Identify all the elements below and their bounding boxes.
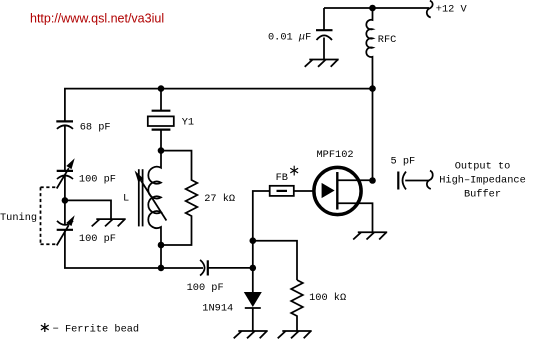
svg-text:RFC: RFC (378, 34, 397, 46)
wire RFC node to drain (372, 89, 374, 181)
node bottom rail junction (158, 265, 165, 272)
node L bottom junction (158, 242, 165, 249)
wire FB to gate (294, 190, 315, 192)
svg-text:FB: FB (276, 172, 288, 184)
resistor R1 27k (161, 151, 197, 245)
svg-text:Y1: Y1 (182, 116, 194, 128)
node gate-resistor junction (250, 237, 257, 244)
diode D1 1N914 (252, 268, 254, 292)
capacitor C2 68pF (56, 120, 73, 122)
wire C5 to gate node (208, 267, 253, 269)
wire source (337, 203, 372, 232)
wire C3 to node (64, 176, 66, 225)
wire drain (337, 179, 372, 181)
svg-text:+12 V: +12 V (436, 4, 468, 16)
node top-rail Y1 junction (158, 85, 165, 92)
arrow L (141, 181, 166, 221)
node diode junction (250, 265, 257, 272)
ground G4 (234, 331, 268, 338)
ground G3 (353, 232, 387, 239)
svg-text:100 pF: 100 pF (79, 173, 116, 185)
svg-text:1N914: 1N914 (202, 303, 233, 315)
inductor L core lines (138, 169, 140, 226)
svg-text:5 pF: 5 pF (391, 155, 416, 167)
svg-text:http://www.qsl.net/va3iul: http://www.qsl.net/va3iul (30, 12, 164, 26)
arrow C3 (57, 168, 69, 188)
capacitor C3 100pF variable (57, 170, 73, 172)
svg-text:Tuning: Tuning (0, 212, 37, 224)
note ferrite bead asterisk (41, 323, 49, 332)
wire C1 to ground (323, 38, 325, 60)
svg-text:L: L (123, 193, 129, 205)
node top-rail right junction (369, 85, 376, 92)
capacitor C1 0.01uF plates (316, 29, 333, 31)
wire L bottom to rail (160, 245, 162, 268)
svg-text:− Ferrite bead: − Ferrite bead (53, 324, 140, 336)
transistor Q1 channel (336, 172, 338, 210)
inductor L coil (148, 151, 161, 245)
svg-text:100 kΩ: 100 kΩ (309, 292, 346, 304)
arrow C4 (57, 225, 69, 245)
svg-text:100 pF: 100 pF (79, 233, 116, 245)
svg-text:27 kΩ: 27 kΩ (204, 193, 235, 205)
wire +12V rail (324, 7, 429, 9)
wire top rail (65, 89, 373, 122)
ground G5 (278, 331, 312, 338)
wire to output (405, 180, 429, 182)
wire tuning node to ground (65, 200, 111, 219)
capacitor C6 5pF (397, 172, 399, 190)
wire C2 to varcap (64, 126, 66, 171)
node junction V+ (369, 5, 376, 12)
svg-text:100 pF: 100 pF (187, 282, 224, 294)
svg-text:Buffer: Buffer (464, 189, 501, 201)
svg-text:Output to: Output to (455, 161, 511, 173)
ground G1 (305, 60, 339, 67)
node drain junction (369, 177, 376, 184)
svg-text:High–Impedance: High–Impedance (439, 175, 526, 187)
node tuning junction (62, 197, 69, 204)
svg-text:MPF102: MPF102 (317, 149, 354, 161)
connector output squiggle (427, 171, 433, 189)
inductor RFC (366, 8, 372, 89)
connector +12V squiggle (427, 1, 433, 18)
transistor Q1 gate arrow (322, 183, 335, 198)
capacitor C5 100pF coupling (200, 260, 205, 276)
ground G2 (92, 219, 126, 226)
svg-text:0.01 μF: 0.01 μF (268, 31, 311, 43)
crystal Y1 (160, 89, 162, 111)
ferrite bead FB (270, 186, 294, 196)
transistor Q1 MPF102 circle (314, 167, 361, 214)
svg-text:68 pF: 68 pF (80, 122, 111, 134)
label FB asterisk (290, 166, 298, 176)
resistor R2 100k (291, 280, 303, 331)
wire bottom rail (65, 230, 203, 268)
wire gate riser (253, 191, 270, 268)
wire to 100k (253, 241, 297, 280)
capacitor C4 100pF variable (57, 221, 73, 225)
node Y1 bottom junction (158, 147, 165, 154)
capacitor C1 0.01uF wire (323, 8, 325, 30)
tuning linkage dashed (41, 187, 57, 244)
